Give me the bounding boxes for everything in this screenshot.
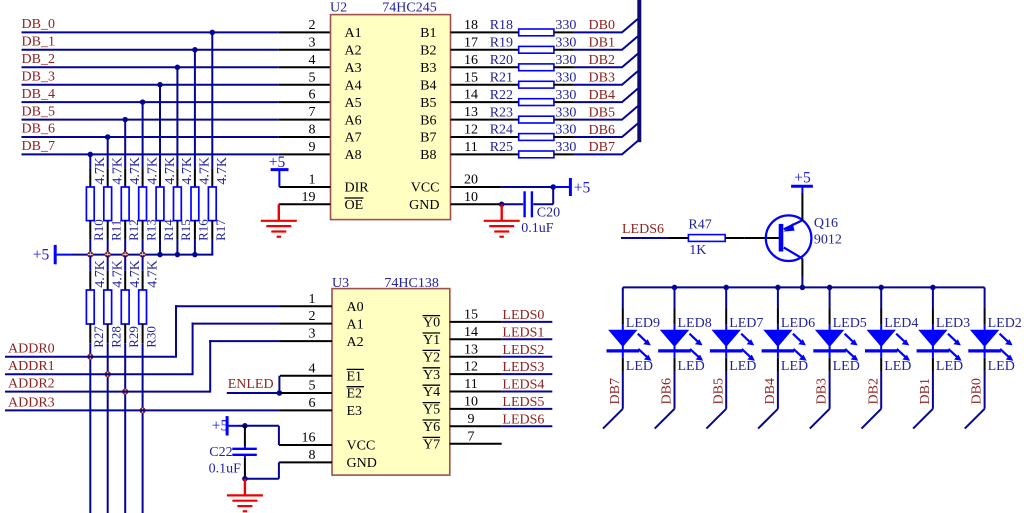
X-junction +5 rail col 2 <box>105 252 111 258</box>
wire +5 to node <box>238 425 245 427</box>
junction C22 top <box>242 423 248 429</box>
U3 pin 9 stub <box>450 425 502 427</box>
wire U2 pin 19 stub <box>279 203 331 205</box>
wire col 3 down to edge <box>142 343 144 513</box>
resistor R20 body <box>519 64 554 71</box>
LED LED4 anode pin <box>880 309 882 325</box>
ground at U2 OE <box>278 204 280 221</box>
svg-text:LED: LED <box>884 359 911 374</box>
svg-text:A5: A5 <box>345 96 362 111</box>
svg-text:DB3: DB3 <box>815 378 830 404</box>
svg-text:DB6: DB6 <box>660 378 675 404</box>
U3 pin 6 stub <box>280 409 332 411</box>
junction on DB_2 <box>175 65 181 71</box>
wire rail to LED9 <box>622 287 624 308</box>
wire U2 pin 13 stub <box>451 119 519 121</box>
svg-text:Y3: Y3 <box>423 368 440 383</box>
X-junction ADDR1 <box>105 371 111 377</box>
svg-text:74HC138: 74HC138 <box>384 276 438 291</box>
wire DB3 vertical <box>829 371 831 409</box>
svg-text:8: 8 <box>309 123 316 138</box>
junction Q16 to LED rail <box>800 285 806 291</box>
resistor R24 body <box>519 134 554 141</box>
wire DB_2 horizontal <box>22 66 279 68</box>
wire C20 to +5 node <box>533 203 553 205</box>
U3 pin 13 stub <box>450 356 502 358</box>
junction on DB_3 <box>157 82 163 88</box>
svg-text:1: 1 <box>309 173 316 188</box>
svg-text:B4: B4 <box>420 78 436 93</box>
wire vertical DB_7 to R10 <box>89 154 91 168</box>
U3 pin 16 stub <box>280 444 332 446</box>
svg-text:+5: +5 <box>33 246 50 263</box>
svg-text:ADDR2: ADDR2 <box>8 377 55 392</box>
ground at C22 <box>244 479 246 496</box>
bus entry stub DB4 <box>758 409 778 429</box>
svg-text:8: 8 <box>309 448 316 463</box>
wire U2 pin 20 stub <box>451 186 501 188</box>
svg-text:DB0: DB0 <box>589 18 615 33</box>
svg-text:74HC245: 74HC245 <box>382 0 436 15</box>
svg-text:4.7K: 4.7K <box>163 157 178 185</box>
resistor R10 body <box>86 187 94 221</box>
svg-text:VCC: VCC <box>347 439 376 454</box>
svg-text:R29: R29 <box>126 326 141 348</box>
wire to bus entry DB0 <box>573 31 623 33</box>
wire U2 pin 10 stub <box>451 203 502 205</box>
resistor R12 body <box>121 187 129 221</box>
svg-text:20: 20 <box>464 173 478 188</box>
svg-text:DB_4: DB_4 <box>22 87 55 102</box>
IC U3 74HC138 body <box>332 289 450 476</box>
svg-text:R20: R20 <box>490 53 513 68</box>
svg-text:Y7: Y7 <box>423 437 440 452</box>
LED LED8 cathode pin <box>674 358 676 371</box>
svg-text:330: 330 <box>555 123 576 138</box>
svg-text:330: 330 <box>555 88 576 103</box>
junction ENLED E2 <box>277 390 283 396</box>
svg-text:B8: B8 <box>420 148 436 163</box>
svg-text:DB5: DB5 <box>589 105 615 120</box>
svg-text:7: 7 <box>309 105 316 120</box>
resistor R20 right pin <box>554 66 573 68</box>
wire U2 pin 18 stub <box>451 31 519 33</box>
wire col 0 down to edge <box>89 343 91 513</box>
wire R16 to +5 rail <box>194 240 196 255</box>
wire GND node to pin 8 <box>245 478 279 480</box>
resistor R27 bottom pin <box>89 324 91 343</box>
resistor R15 body <box>174 187 182 221</box>
junction GND node <box>499 202 505 208</box>
svg-text:7: 7 <box>468 429 475 444</box>
wire R14 to +5 rail <box>159 240 161 255</box>
junction on DB_6 <box>105 134 111 140</box>
wire Q16 emitter to +5 <box>801 193 803 221</box>
wire U2 pin 1 stub <box>279 186 330 188</box>
svg-text:13: 13 <box>464 105 478 120</box>
svg-text:9012: 9012 <box>814 233 842 248</box>
LED LED4 light arrows <box>896 334 910 361</box>
resistor R16 top pin <box>194 168 196 187</box>
LED LED5 cathode pin <box>829 358 831 371</box>
wire to bus entry DB5 <box>573 119 623 121</box>
LED LED9 light arrows <box>638 334 652 361</box>
svg-text:DB0: DB0 <box>970 378 985 404</box>
bus entry stub DB7 <box>603 409 623 429</box>
bus entry DB4 <box>622 89 638 103</box>
svg-text:R13: R13 <box>143 219 158 241</box>
wire LEDS5 <box>502 408 553 410</box>
svg-text:R17: R17 <box>213 219 228 241</box>
LED LED4 triangle <box>867 330 897 347</box>
wire LEDS1 <box>502 338 553 340</box>
svg-text:4.7K: 4.7K <box>128 157 143 185</box>
svg-text:DB_7: DB_7 <box>22 139 55 154</box>
svg-text:12: 12 <box>464 360 478 375</box>
bus entry stub DB6 <box>655 409 675 429</box>
wire U2 pin 15 stub <box>451 84 519 86</box>
wire vertical DB_3 to R14 <box>159 85 161 169</box>
svg-text:E1: E1 <box>347 369 363 384</box>
power +5 at U2 VCC <box>553 186 570 188</box>
svg-text:4.7K: 4.7K <box>93 157 108 185</box>
svg-text:B1: B1 <box>420 26 436 41</box>
LED LED3 light arrows <box>948 334 962 361</box>
svg-text:A0: A0 <box>347 300 364 315</box>
svg-text:R14: R14 <box>161 219 176 241</box>
LED LED6 triangle <box>763 330 792 347</box>
svg-text:14: 14 <box>464 325 478 340</box>
svg-text:DIR: DIR <box>345 181 370 196</box>
bus entry stub DB0 <box>965 409 985 429</box>
wire DB0 vertical <box>984 371 986 409</box>
wire DB_0 horizontal <box>22 31 279 33</box>
wire U2 pin 8 stub <box>279 136 331 138</box>
resistor R12 bottom pin <box>124 221 126 240</box>
svg-text:9: 9 <box>468 412 475 427</box>
svg-text:15: 15 <box>464 70 478 85</box>
wire +5 node to VCC pin <box>245 425 279 427</box>
wire LED rail <box>623 286 985 288</box>
LED LED6 cathode pin <box>777 358 779 371</box>
wire ADDR0 horizontal <box>5 356 176 358</box>
wire rail to LED5 <box>829 287 831 308</box>
wire DB_3 horizontal <box>22 84 279 86</box>
svg-text:330: 330 <box>555 70 576 85</box>
svg-text:2: 2 <box>309 18 316 33</box>
wire DB6 vertical <box>674 371 676 409</box>
junction +5 rail <box>192 252 198 258</box>
wire DB_1 horizontal <box>22 49 279 51</box>
bus entry DB2 <box>622 54 638 68</box>
wire to bus entry DB1 <box>573 49 623 51</box>
svg-text:LEDS5: LEDS5 <box>502 395 544 410</box>
junction on DB_4 <box>140 99 146 105</box>
wire U2 pin 6 stub <box>279 101 331 103</box>
resistor R19 right pin <box>554 49 573 51</box>
resistor R24 right pin <box>554 136 573 138</box>
svg-text:10: 10 <box>464 395 478 410</box>
svg-text:330: 330 <box>555 18 576 33</box>
svg-text:4.7K: 4.7K <box>111 157 126 185</box>
svg-text:LED6: LED6 <box>781 316 815 331</box>
svg-text:LEDS3: LEDS3 <box>502 360 544 375</box>
junction C22 bottom <box>242 476 248 482</box>
wire ADDR2 vertical <box>209 340 211 393</box>
svg-text:R11: R11 <box>109 220 124 241</box>
X-junction +5 rail col 4 <box>140 252 146 258</box>
U3 pin 1 stub <box>280 305 332 307</box>
LED LED7 light arrows <box>741 334 755 361</box>
svg-text:LED7: LED7 <box>729 316 763 331</box>
svg-text:R15: R15 <box>178 219 193 241</box>
wire LEDS4 <box>502 391 553 393</box>
svg-text:B2: B2 <box>420 44 436 59</box>
wire +5 rail horizontal <box>72 254 213 256</box>
bus entry DB7 <box>622 141 638 155</box>
bus entry DB5 <box>622 106 638 120</box>
svg-text:11: 11 <box>464 377 477 392</box>
resistor R23 right pin <box>554 119 573 121</box>
LED LED9 triangle <box>608 330 637 347</box>
svg-text:DB1: DB1 <box>589 36 615 51</box>
transistor Q16 collector <box>784 248 803 259</box>
junction on DB_5 <box>122 117 128 123</box>
svg-text:B5: B5 <box>420 96 436 111</box>
resistor R47 left pin <box>670 237 689 239</box>
bus entry stub DB2 <box>862 409 882 429</box>
wire R47 to Q16 base <box>744 237 779 239</box>
bus entry stub DB1 <box>913 409 933 429</box>
wire LEDS0 <box>502 321 553 323</box>
svg-text:DB6: DB6 <box>589 123 615 138</box>
svg-text:LED5: LED5 <box>833 316 867 331</box>
LED LED2 anode pin <box>984 309 986 325</box>
resistor R11 top pin <box>107 168 109 187</box>
wire U2 pin 5 stub <box>279 84 331 86</box>
wire DB_6 horizontal <box>22 136 279 138</box>
svg-text:A7: A7 <box>345 131 362 146</box>
svg-text:GND: GND <box>409 198 439 213</box>
LED LED4 cathode bar <box>865 349 898 352</box>
wire R15 to +5 rail <box>176 240 178 255</box>
svg-text:DB5: DB5 <box>711 378 726 404</box>
U3 pin 8 stub <box>280 461 332 463</box>
wire LEDS2 <box>502 356 553 358</box>
X-junction +5 rail col 1 <box>87 252 93 258</box>
wire DB7 vertical <box>622 371 624 409</box>
svg-text:R19: R19 <box>490 36 513 51</box>
resistor R14 bottom pin <box>159 221 161 240</box>
svg-text:Q16: Q16 <box>814 216 838 231</box>
LED LED4 cathode pin <box>880 358 882 371</box>
LED LED2 cathode bar <box>968 349 1001 352</box>
svg-text:10: 10 <box>464 190 478 205</box>
svg-text:A2: A2 <box>347 335 364 350</box>
svg-text:LED3: LED3 <box>936 316 970 331</box>
U3 pin 11 stub <box>450 391 502 393</box>
svg-text:+5: +5 <box>794 170 811 187</box>
wire ADDR3 horizontal <box>5 409 280 411</box>
svg-text:330: 330 <box>555 53 576 68</box>
svg-text:12: 12 <box>464 123 478 138</box>
resistor R28 body <box>104 290 112 324</box>
wire DB_7 horizontal <box>22 153 279 155</box>
wire R11 to +5 rail <box>107 240 109 255</box>
wire to bus entry DB4 <box>573 101 623 103</box>
svg-text:18: 18 <box>464 18 478 33</box>
junction on DB_0 <box>210 30 216 36</box>
wire to bus entry DB2 <box>573 66 623 68</box>
bus entry stub DB3 <box>810 409 830 429</box>
svg-text:A3: A3 <box>345 61 362 76</box>
svg-text:5: 5 <box>309 70 316 85</box>
svg-text:DB_6: DB_6 <box>22 122 55 137</box>
svg-text:4.7K: 4.7K <box>198 157 213 185</box>
U3 pin 3 stub <box>280 340 332 342</box>
svg-text:1K: 1K <box>689 243 706 258</box>
LED LED5 anode pin <box>829 309 831 325</box>
resistor R13 body <box>139 187 147 221</box>
resistor R19 body <box>519 46 554 53</box>
LED LED7 anode pin <box>725 309 727 325</box>
transistor Q16 base bar <box>779 224 784 252</box>
resistor R47 body <box>688 235 725 242</box>
wire R13 to +5 rail <box>142 240 144 255</box>
svg-text:1: 1 <box>309 292 316 307</box>
bus entry stub DB5 <box>706 409 726 429</box>
svg-text:DB_2: DB_2 <box>22 52 55 67</box>
svg-text:3: 3 <box>309 35 316 50</box>
svg-text:GND: GND <box>347 456 377 471</box>
svg-text:DB4: DB4 <box>589 88 615 103</box>
junction LED rail <box>878 285 884 291</box>
svg-text:4.7K: 4.7K <box>180 157 195 185</box>
wire U2 pin 14 stub <box>451 101 519 103</box>
capacitor C22 plates <box>232 448 256 450</box>
svg-text:Y1: Y1 <box>423 333 440 348</box>
svg-text:19: 19 <box>302 190 316 205</box>
LED LED3 cathode pin <box>932 358 934 371</box>
wire LEDS6 <box>502 425 553 427</box>
svg-text:4: 4 <box>309 361 316 376</box>
transistor Q16 emitter <box>784 220 803 229</box>
resistor R22 body <box>519 99 554 106</box>
LED LED2 light arrows <box>1000 334 1014 361</box>
resistor R13 bottom pin <box>142 221 144 240</box>
resistor R30 bottom pin <box>142 324 144 343</box>
svg-text:LED: LED <box>678 359 705 374</box>
svg-text:OE: OE <box>345 198 364 213</box>
resistor R47 right pin <box>725 237 744 239</box>
wire rail to LED2 <box>984 287 986 308</box>
svg-text:LED: LED <box>626 359 653 374</box>
wire ADDR1 to U3 pin 2 <box>193 323 280 325</box>
svg-text:LED8: LED8 <box>678 316 712 331</box>
wire DB1 vertical <box>932 371 934 409</box>
wire LEDS6 <box>621 237 670 239</box>
capacitor C22 bottom lead <box>244 455 246 458</box>
resistor R21 body <box>519 81 554 88</box>
LED LED9 cathode bar <box>607 349 640 352</box>
resistor R17 top pin <box>211 168 213 187</box>
wire U2 pin 11 stub <box>451 153 519 155</box>
svg-text:330: 330 <box>555 140 576 155</box>
svg-text:LED: LED <box>729 359 756 374</box>
IC U2 74HC245 body <box>331 15 451 220</box>
LED LED8 light arrows <box>690 334 704 361</box>
wire ENLED to E1 <box>278 376 280 393</box>
svg-text:LED9: LED9 <box>626 316 660 331</box>
junction +5 rail <box>157 252 163 258</box>
resistor R29 top pin <box>124 256 126 271</box>
resistor R27 body <box>86 290 94 324</box>
junction on DB_1 <box>192 47 198 53</box>
resistor R28 bottom pin <box>107 324 109 343</box>
wire rail to LED6 <box>777 287 779 308</box>
svg-text:LEDS6: LEDS6 <box>502 412 544 427</box>
wire R12 to +5 rail <box>124 240 126 255</box>
X-junction ADDR2 <box>122 389 128 395</box>
transistor Q16 circle <box>766 215 812 261</box>
junction LED rail <box>827 285 833 291</box>
svg-text:3: 3 <box>309 327 316 342</box>
svg-text:R47: R47 <box>688 218 711 233</box>
svg-text:14: 14 <box>464 88 478 103</box>
svg-text:A2: A2 <box>345 44 362 59</box>
svg-text:LED2: LED2 <box>988 316 1022 331</box>
resistor R21 right pin <box>554 84 573 86</box>
wire to bus entry DB7 <box>573 153 623 155</box>
svg-text:4.7K: 4.7K <box>145 260 160 288</box>
wire U2 pin 4 stub <box>279 66 331 68</box>
svg-text:Y5: Y5 <box>423 403 440 418</box>
svg-text:6: 6 <box>309 88 316 103</box>
svg-text:VCC: VCC <box>411 181 440 196</box>
resistor R16 body <box>191 187 199 221</box>
LED LED5 triangle <box>815 330 844 347</box>
svg-text:LEDS1: LEDS1 <box>502 325 544 340</box>
resistor R18 body <box>519 29 554 36</box>
junction VCC node <box>550 184 556 190</box>
svg-text:13: 13 <box>464 342 478 357</box>
svg-text:16: 16 <box>464 53 478 68</box>
svg-text:Y0: Y0 <box>423 316 440 331</box>
LED LED9 anode pin <box>622 309 624 325</box>
LED LED6 anode pin <box>777 309 779 325</box>
svg-text:A1: A1 <box>345 26 362 41</box>
svg-text:DB3: DB3 <box>589 71 615 86</box>
U3 pin 4 stub <box>280 375 332 377</box>
svg-text:LED4: LED4 <box>884 316 918 331</box>
U3 pin 2 stub <box>280 323 332 325</box>
wire DB5 vertical <box>725 371 727 409</box>
svg-text:9: 9 <box>309 140 316 155</box>
capacitor C22 top lead <box>244 426 246 446</box>
svg-text:5: 5 <box>309 379 316 394</box>
wire ADDR2 horizontal <box>5 391 210 393</box>
svg-text:DB2: DB2 <box>589 53 615 68</box>
U3 pin 14 stub <box>450 338 502 340</box>
junction +5 rail <box>175 252 181 258</box>
wire Q16 collector down <box>801 259 803 277</box>
resistor R29 bottom pin <box>124 324 126 343</box>
svg-text:DB7: DB7 <box>608 378 623 404</box>
U3 pin 7 stub <box>450 443 502 445</box>
U3 pin 10 stub <box>450 408 502 410</box>
resistor R25 body <box>519 151 554 158</box>
svg-text:U2: U2 <box>330 0 347 15</box>
